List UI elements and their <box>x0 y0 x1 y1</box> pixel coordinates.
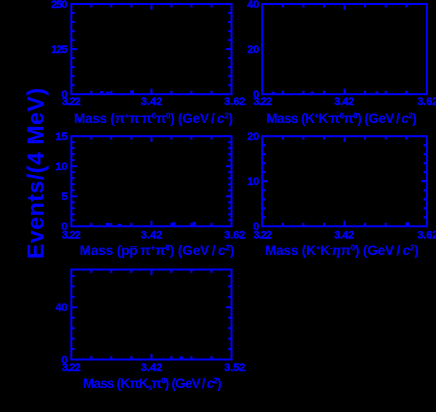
plot5 x-axis ticks <box>90 356 92 359</box>
plot3 data bin d <box>193 222 197 226</box>
plot5 data bin a <box>180 357 184 359</box>
plot5 y-axis ticks <box>71 348 74 350</box>
plot4 (K+K-eta pi0) frame <box>262 136 427 226</box>
plot1 x-axis ticks <box>90 91 92 94</box>
svg-text:Mass (K+K-ηπ0) (GeV / c2): Mass (K+K-ηπ0) (GeV / c2) <box>265 243 419 258</box>
plot5 (K pi Ks pi0) frame <box>71 270 231 360</box>
svg-text:3.22: 3.22 <box>62 229 81 241</box>
svg-text:250: 250 <box>51 0 67 11</box>
svg-text:3.22: 3.22 <box>62 96 81 108</box>
svg-text:40: 40 <box>247 0 259 11</box>
plot2 data bin c <box>375 92 378 94</box>
plot1 (pi+pi-pi0pi0) frame <box>71 4 231 94</box>
svg-text:3.62: 3.62 <box>224 96 245 108</box>
plot1 y-axis ticks <box>71 12 74 14</box>
plot4 x-axis ticks <box>282 223 284 226</box>
plot3 (ppbar pi pi0) frame <box>71 136 231 226</box>
svg-text:3.42: 3.42 <box>141 229 163 241</box>
plot2 x-axis ticks <box>282 91 284 94</box>
plot3 data bin a <box>106 223 110 226</box>
svg-text:20: 20 <box>247 44 259 56</box>
svg-text:10: 10 <box>55 161 67 173</box>
svg-text:3.22: 3.22 <box>253 96 272 108</box>
svg-text:10: 10 <box>247 176 259 188</box>
svg-text:125: 125 <box>51 44 67 56</box>
plot4 y-axis ticks <box>262 144 265 146</box>
svg-text:3.52: 3.52 <box>224 362 245 374</box>
svg-text:3.62: 3.62 <box>417 96 436 108</box>
plot2 data bin a <box>272 92 275 94</box>
svg-text:3.22: 3.22 <box>62 362 81 374</box>
svg-text:3.62: 3.62 <box>224 229 245 241</box>
plot3 x-axis ticks <box>90 223 92 226</box>
svg-text:3.42: 3.42 <box>334 229 354 241</box>
svg-text:3.42: 3.42 <box>141 96 163 108</box>
plot1 data bin a <box>100 91 103 93</box>
svg-text:5: 5 <box>61 191 67 203</box>
svg-text:3.62: 3.62 <box>417 229 436 241</box>
plot1 data bin c <box>130 90 134 93</box>
plot2 (K+K-pi0pi0) frame <box>262 4 427 94</box>
svg-text:Mass (KπKsπ0) (GeV / c2): Mass (KπKsπ0) (GeV / c2) <box>83 376 222 392</box>
plot3 y-axis ticks <box>71 141 74 143</box>
svg-text:40: 40 <box>55 302 67 314</box>
plot3 data bin b <box>118 224 122 226</box>
svg-text:20: 20 <box>247 131 259 143</box>
svg-text:3.42: 3.42 <box>141 362 163 374</box>
svg-text:3.22: 3.22 <box>253 229 272 241</box>
plot1 data bin b <box>106 92 109 94</box>
plot3 data bin c <box>172 222 176 225</box>
svg-text:Events/(4 MeV): Events/(4 MeV) <box>23 88 49 259</box>
svg-text:15: 15 <box>55 131 67 143</box>
svg-text:Mass (pp̅ π+π0) (GeV / c2): Mass (pp̅ π+π0) (GeV / c2) <box>80 243 235 258</box>
svg-text:3.42: 3.42 <box>334 96 354 108</box>
plot2 y-axis ticks <box>262 144 265 146</box>
plot2 data bin b <box>311 92 314 94</box>
plot4 data bin a <box>406 222 410 225</box>
